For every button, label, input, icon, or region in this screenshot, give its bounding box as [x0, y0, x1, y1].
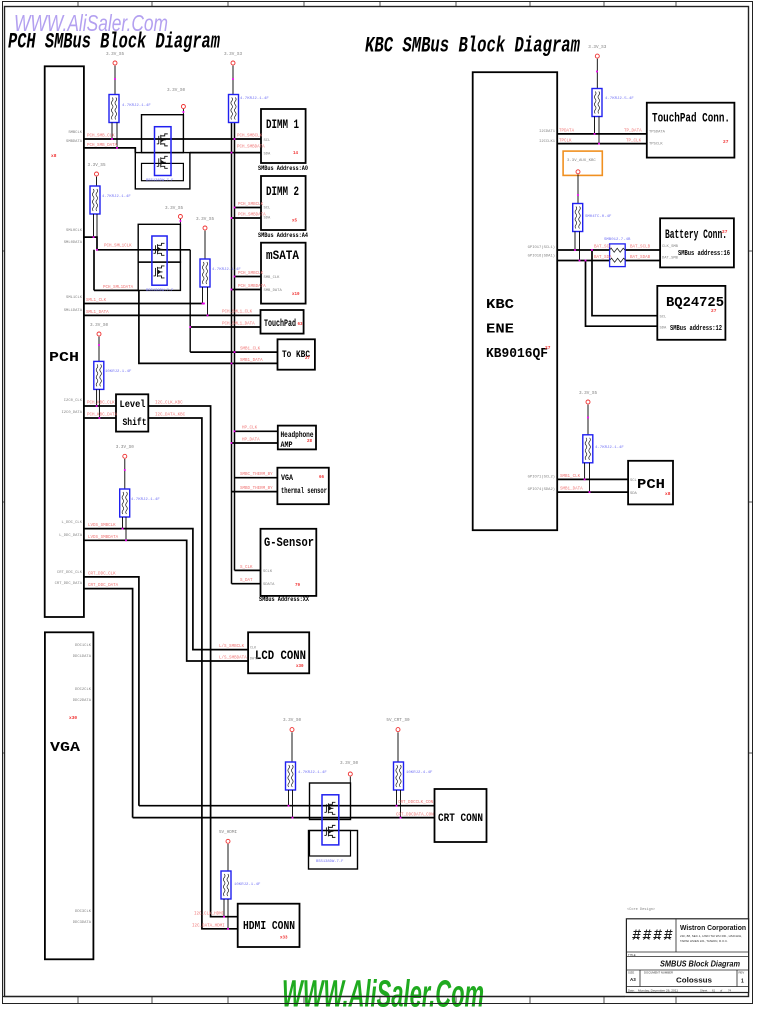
svg-text:27: 27 — [711, 308, 717, 314]
wire DIMM2 SDA stub — [232, 217, 262, 219]
wire To-KBC DATA wrap — [94, 250, 278, 364]
svg-text:3.3V_S5: 3.3V_S5 — [196, 217, 214, 222]
net labels right — [559, 130, 651, 492]
power flag 3.3V_S5 (R1) — [106, 52, 124, 95]
wire R8 leads — [224, 899, 228, 929]
svg-text:Shift: Shift — [123, 417, 147, 429]
svg-text:PCH: PCH — [637, 478, 665, 493]
svg-text:L/S_SMBDATA: L/S_SMBDATA — [219, 656, 247, 661]
svg-text:DOCUMENT NUMBER: DOCUMENT NUMBER — [644, 971, 673, 975]
svg-text:79: 79 — [295, 584, 301, 588]
resistor R7 pull-up CRT 5V — [394, 762, 404, 790]
resistor R4 pull-up SML1 — [200, 259, 210, 287]
wire Headphone DATA stub — [232, 442, 278, 444]
svg-text:3.3V_S0: 3.3V_S0 — [283, 718, 301, 723]
wire mSATA SMB_CLK stub — [235, 276, 262, 278]
svg-text:BSS138DW-7-F: BSS138DW-7-F — [316, 860, 344, 864]
wire VGA-thermal DATA stub — [232, 491, 278, 493]
svg-text:TouchPad Conn.: TouchPad Conn. — [652, 112, 730, 126]
svg-text:SML0DATA: SML0DATA — [64, 241, 83, 245]
wire CRT CLK bus to CRT CONN — [139, 805, 435, 807]
svg-text:BAT_SCLB: BAT_SCLB — [630, 246, 651, 250]
resistor R9 pull-up LVDS — [120, 489, 130, 517]
resistor R3 pull-up SML0 — [90, 186, 100, 214]
block TouchPad Conn. — [647, 103, 735, 158]
svg-text:4.7KRJ2-1-4F: 4.7KRJ2-1-4F — [122, 104, 151, 108]
svg-text:DATA: DATA — [250, 658, 259, 662]
resistor R10 pull-up SMB1 — [583, 435, 593, 463]
svg-text:KBC: KBC — [486, 298, 514, 313]
svg-text:3.3V_S0: 3.3V_S0 — [90, 323, 108, 328]
junction dots left — [93, 78, 402, 930]
svg-text:Level: Level — [120, 399, 146, 411]
block HDMI CONN — [238, 904, 300, 947]
block DIMM 2 — [261, 176, 306, 230]
svg-text:PCH_SMB_CLK: PCH_SMB_CLK — [87, 135, 115, 139]
svg-text:PCH_SML1CLK: PCH_SML1CLK — [104, 245, 132, 249]
svg-text:3.3V_S0: 3.3V_S0 — [116, 445, 134, 450]
svg-text:3.3V_S5: 3.3V_S5 — [87, 163, 105, 168]
svg-text:21F, 88, SEC.1, HSIN TAI WU RD: 21F, 88, SEC.1, HSIN TAI WU RD., HSICHIH… — [680, 934, 742, 938]
svg-text:CLK_SMB: CLK_SMB — [662, 245, 679, 249]
wire BAT_SCL — [557, 249, 660, 251]
svg-text:SIZE: SIZE — [628, 971, 634, 975]
wire R13 leads — [595, 117, 600, 144]
svg-text:BAT_SDAB: BAT_SDAB — [630, 256, 651, 260]
svg-text:I2CCLK1: I2CCLK1 — [539, 140, 556, 144]
svg-text:CRT_DDC_DATA: CRT_DDC_DATA — [55, 582, 83, 586]
svg-text:x30: x30 — [69, 715, 77, 721]
svg-text:LVDS_SMBCLK: LVDS_SMBCLK — [88, 524, 116, 528]
svg-text:I2C_CLK_KBC: I2C_CLK_KBC — [155, 402, 183, 406]
resistor R11 battery pull-up — [573, 204, 583, 232]
svg-text:SML1CLK: SML1CLK — [66, 296, 83, 300]
svg-text:SMBus Address:A4: SMBus Address:A4 — [258, 232, 308, 239]
svg-text:SMBDATA: SMBDATA — [66, 140, 83, 144]
svg-text:3.3V_S3: 3.3V_S3 — [588, 45, 606, 50]
svg-text:66: 66 — [319, 476, 325, 480]
wire cluster2 CLK output vertical — [189, 250, 191, 352]
wire BQ24725 SDA — [586, 261, 658, 327]
svg-text:I2CDAT1: I2CDAT1 — [539, 130, 556, 134]
svg-text:I2C0_CLK: I2C0_CLK — [64, 399, 83, 403]
svg-text:REV: REV — [739, 971, 745, 975]
svg-text:S_DAT: S_DAT — [240, 579, 253, 583]
net labels left — [86, 135, 434, 929]
wire PCH to LevelShift DATA — [84, 417, 116, 419]
svg-text:AMP: AMP — [281, 441, 293, 450]
svg-text:3.3V_S5: 3.3V_S5 — [106, 52, 124, 57]
wire PCH to LevelShift CLK — [84, 405, 116, 407]
svg-text:HP_CLK: HP_CLK — [242, 427, 258, 431]
power flag 3.3V_S0 (R6) — [283, 718, 301, 762]
svg-text:of: of — [720, 989, 723, 993]
svg-text:27: 27 — [722, 229, 728, 235]
svg-text:DDC3DATA: DDC3DATA — [73, 921, 92, 925]
svg-text:SMB1_CLK: SMB1_CLK — [560, 475, 581, 479]
svg-text:5V_CRT_S0: 5V_CRT_S0 — [386, 718, 410, 723]
svg-text:27: 27 — [723, 139, 729, 145]
wire SMB bus verticals — [232, 123, 235, 584]
svg-text:SML1_CLK: SML1_CLK — [86, 299, 107, 303]
svg-text:PCH_SMBCLK: PCH_SMBCLK — [238, 272, 264, 276]
power flag 3.3V_S3 (R2) — [224, 52, 242, 95]
resistor R2 pull-up DIMM — [229, 95, 239, 123]
wire SMB1_DATA KBC-PCH — [557, 491, 628, 493]
svg-text:10KRJ2-4-4F: 10KRJ2-4-4F — [406, 771, 433, 775]
block VGA — [45, 632, 94, 959]
block G-Sensor — [261, 529, 317, 596]
wire R10 leads — [585, 463, 590, 492]
svg-text:PCH_KBC_CLK: PCH_KBC_CLK — [87, 402, 115, 406]
svg-text:L/S_SMBCLK: L/S_SMBCLK — [219, 644, 245, 649]
wire R6 leads — [289, 790, 293, 818]
svg-text:CRT CONN: CRT CONN — [438, 813, 483, 825]
wire mSATA SMB_DATA stub — [232, 289, 262, 291]
block TouchPad — [261, 310, 304, 334]
svg-text:CRT_DDC_DATA: CRT_DDC_DATA — [88, 584, 119, 588]
wire orange stem — [577, 174, 579, 203]
svg-text:x30: x30 — [296, 665, 304, 669]
svg-text:Sheet: Sheet — [700, 989, 708, 993]
svg-text:GPIO71(SCL2): GPIO71(SCL2) — [528, 475, 555, 480]
svg-text:SCL: SCL — [264, 207, 272, 211]
svg-text:TPSCLK: TPSCLK — [649, 143, 663, 147]
wire R7 leads — [397, 790, 401, 818]
svg-text:PCH SMBus Block Diagram: PCH SMBus Block Diagram — [8, 29, 220, 55]
svg-text:CRT_DDCCLK_CON: CRT_DDCCLK_CON — [398, 801, 434, 805]
resistor R1 pull-up SMB — [109, 95, 119, 123]
svg-text:4.7KRJ2-1-4F: 4.7KRJ2-1-4F — [595, 446, 624, 450]
svg-text:4.7KRJ2-5-4F: 4.7KRJ2-5-4F — [605, 97, 634, 101]
svg-text:28: 28 — [307, 440, 313, 444]
wire SML1_DATA to TouchPad — [84, 314, 261, 316]
svg-text:I2C_DATA_KBC: I2C_DATA_KBC — [155, 414, 186, 418]
svg-text:4.7KRJ2-1-4F: 4.7KRJ2-1-4F — [212, 268, 241, 272]
svg-text:SMBus address:12: SMBus address:12 — [670, 325, 722, 333]
svg-text:GPIO17(SCL1): GPIO17(SCL1) — [528, 245, 555, 250]
power node box 3.3V_AUX_KBC — [563, 151, 602, 175]
wire LVDS DATA to LCD — [84, 540, 248, 661]
svg-text:thermal sensor: thermal sensor — [281, 486, 327, 496]
wire SMB1_CLK KBC-PCH — [557, 478, 628, 480]
transistor cluster Q2 (SML1 level shift) — [138, 224, 180, 293]
svg-text:PCH_SMB_DATA: PCH_SMB_DATA — [87, 144, 118, 148]
svg-text:SDATA: SDATA — [263, 583, 275, 587]
svg-text:SCL: SCL — [660, 316, 668, 320]
svg-text:SMB1_DATA: SMB1_DATA — [240, 359, 263, 363]
svg-text:Battery Conn.: Battery Conn. — [665, 228, 727, 242]
svg-text:DDC3CLK: DDC3CLK — [75, 910, 92, 914]
svg-text:DDC2DATA: DDC2DATA — [73, 699, 92, 703]
wire R4 leads — [203, 287, 208, 315]
title block Wistron — [626, 907, 748, 993]
watermark bottom WWW.AliSaler.Com — [282, 974, 484, 1016]
power flag 3.3V_S0 (R9) — [116, 445, 134, 489]
svg-text:SMBUS Block Diagram: SMBUS Block Diagram — [660, 959, 740, 969]
svg-text:3.3V_AUX_KBC: 3.3V_AUX_KBC — [567, 159, 596, 163]
PCH pin labels — [51, 131, 83, 586]
svg-text:DDC1DATA: DDC1DATA — [73, 655, 92, 659]
svg-text:TPDATA: TPDATA — [559, 130, 575, 134]
wire R9 leads — [123, 517, 127, 540]
wire CRT DATA bus to CRT CONN — [133, 817, 435, 819]
svg-text:SMB_CLK: SMB_CLK — [264, 276, 281, 280]
wire PCH_SMB_DATA jog — [84, 148, 135, 153]
block PCH (from KBC) — [628, 461, 673, 505]
svg-text:DDC1CLK: DDC1CLK — [75, 644, 92, 648]
wire To-KBC CLK — [190, 351, 277, 353]
block LCD CONN — [248, 632, 309, 673]
svg-text:SCLK: SCLK — [263, 570, 273, 574]
svg-text:4.7KRJ2-1-4F: 4.7KRJ2-1-4F — [240, 97, 269, 101]
transistor cluster Q3 (CRT level shift) — [309, 783, 358, 869]
svg-text:x8: x8 — [665, 491, 671, 497]
wire BQ24725 SCL — [592, 250, 657, 316]
svg-text:SMB_DATA: SMB_DATA — [264, 289, 283, 293]
svg-text:SDA: SDA — [660, 327, 668, 331]
svg-text:KB9016QF: KB9016QF — [486, 347, 548, 362]
svg-text:4.7KRJ2-1-4F: 4.7KRJ2-1-4F — [102, 195, 131, 199]
svg-text:SMBus Address:XX: SMBus Address:XX — [259, 596, 309, 603]
power flag 3.3V_S5 (R10) — [579, 391, 597, 435]
svg-text:TP_CLK: TP_CLK — [626, 140, 642, 144]
svg-text:3.3V_S0: 3.3V_S0 — [340, 761, 358, 766]
svg-text:KBC SMBus Block Diagram: KBC SMBus Block Diagram — [365, 32, 580, 58]
svg-text:61: 61 — [712, 989, 716, 993]
junction dots right — [574, 71, 600, 493]
svg-text:GPIO16(SDA1): GPIO16(SDA1) — [528, 254, 555, 259]
wire CRT_DDC_DATA down — [84, 589, 133, 818]
block mSATA — [261, 243, 306, 304]
svg-text:DAT_SMB: DAT_SMB — [662, 257, 679, 261]
svg-text:PCH_SMBDATA: PCH_SMBDATA — [237, 146, 265, 150]
power flag 5V_HDMI (R8) — [219, 830, 237, 871]
svg-text:SCL: SCL — [630, 479, 638, 483]
svg-text:PCH_SMBDATA: PCH_SMBDATA — [238, 214, 266, 218]
svg-text:BAT_SCL: BAT_SCL — [594, 246, 612, 250]
svg-text:SML0CLK: SML0CLK — [66, 229, 83, 233]
svg-text:PCH_SMBCLK: PCH_SMBCLK — [238, 203, 264, 207]
svg-text:I2C_CLK_HDMI: I2C_CLK_HDMI — [194, 913, 225, 917]
block To KBC — [278, 339, 315, 369]
wire KBC TPDATA — [557, 133, 647, 135]
block BQ24725 — [657, 286, 725, 340]
svg-text:GPIO74(SDA2): GPIO74(SDA2) — [528, 487, 555, 492]
svg-text:SDA: SDA — [264, 153, 272, 157]
svg-text:10KRJ2-1-4F: 10KRJ2-1-4F — [105, 370, 132, 374]
svg-text:<Core Design>: <Core Design> — [627, 907, 655, 912]
svg-text:14: 14 — [293, 152, 299, 156]
svg-text:4.7KRJ2-1-4F: 4.7KRJ2-1-4F — [298, 771, 327, 775]
wire R5 leads — [97, 389, 100, 418]
resistor R8 pull-up HDMI — [221, 871, 231, 899]
resistor R6 pull-up CRT 3V — [286, 762, 296, 790]
wire Headphone CLK stub — [235, 430, 278, 432]
svg-text:Monday, December 26, 2011: Monday, December 26, 2011 — [638, 989, 678, 993]
block DIMM 1 — [261, 109, 306, 163]
svg-text:27: 27 — [305, 357, 311, 361]
svg-text:SMBC_THERM_BY: SMBC_THERM_BY — [240, 473, 273, 477]
wire R3 leads — [94, 214, 98, 250]
svg-text:CRT_DDC_CLK: CRT_DDC_CLK — [88, 573, 116, 577]
power flag 3.3V_S0 (R5) — [90, 323, 108, 361]
wire TouchPad DATA — [190, 326, 260, 328]
wire SML1_CLK — [84, 303, 204, 305]
svg-text:Wistron Corporation: Wistron Corporation — [680, 923, 746, 932]
svg-text:74: 74 — [728, 989, 732, 993]
wire G-Sensor SCLK stub — [235, 569, 261, 571]
block Battery Conn. — [660, 218, 734, 267]
svg-text:DIMM 1: DIMM 1 — [266, 117, 299, 132]
power flag 3.3V_S0 (cluster Q1) — [167, 88, 185, 115]
svg-text:4.7KRJ2-1-4F: 4.7KRJ2-1-4F — [131, 498, 160, 502]
svg-text:x10: x10 — [292, 293, 300, 297]
svg-text:Colossus: Colossus — [676, 978, 712, 985]
wire BAT_SDA — [557, 260, 660, 262]
svg-text:CRT_DDCDATA_CON: CRT_DDCDATA_CON — [396, 814, 434, 818]
wire PCH_SML0 jog through cluster — [84, 237, 190, 250]
svg-text:10KRJ2-1-4F: 10KRJ2-1-4F — [234, 883, 261, 887]
svg-text:5V_HDMI: 5V_HDMI — [219, 830, 237, 835]
svg-text:27: 27 — [545, 345, 551, 351]
svg-text:HDMI CONN: HDMI CONN — [243, 919, 295, 933]
power flag 3.3V_S3 (R13) — [588, 45, 606, 89]
svg-text:TITLE: TITLE — [628, 953, 636, 957]
block Level Shift — [116, 394, 148, 431]
wire VGA-thermal CLK stub — [235, 477, 278, 479]
svg-text:SML1DATA: SML1DATA — [64, 309, 83, 313]
wire LVDS CLK to LCD — [84, 529, 248, 650]
svg-text:PCH_SML1DATA: PCH_SML1DATA — [103, 286, 134, 290]
svg-text:x8: x8 — [51, 153, 57, 159]
svg-text:CRT_DDC_CLK: CRT_DDC_CLK — [57, 571, 83, 575]
resistor R13 pull-up touchpad — [592, 89, 602, 117]
power flag 3.3V_S5 (cluster Q2) — [165, 206, 183, 224]
block Headphone AMP — [278, 426, 316, 450]
wire G-Sensor SDATA stub — [232, 583, 261, 585]
svg-text:PCH_SMBCLK: PCH_SMBCLK — [237, 135, 263, 139]
svg-text:x33: x33 — [280, 937, 288, 941]
power flag 3.3V_S0 (cluster Q3) — [340, 761, 358, 783]
svg-text:Date:: Date: — [628, 989, 635, 993]
svg-text:mSATA: mSATA — [266, 248, 299, 263]
svg-text:63: 63 — [298, 323, 304, 327]
title PCH SMBus Block Diagram — [8, 29, 220, 55]
wire DIMM2 SCL stub — [235, 207, 262, 209]
block KBC ENE KB9016QF — [473, 72, 558, 530]
svg-text:SMB012-7-4B: SMB012-7-4B — [604, 238, 631, 242]
svg-text:PCH_SML1_CLK: PCH_SML1_CLK — [222, 311, 253, 315]
svg-text:ENE: ENE — [486, 323, 514, 338]
svg-text:SMBus Address:A0: SMBus Address:A0 — [258, 165, 308, 172]
svg-text:SMBCLK: SMBCLK — [68, 131, 82, 135]
svg-text:DDC2CLK: DDC2CLK — [75, 688, 92, 692]
svg-text:SMB1_CLK: SMB1_CLK — [240, 348, 261, 352]
svg-text:LVDS_SMBDATA: LVDS_SMBDATA — [88, 536, 119, 540]
svg-text:SM04TC-0-4F: SM04TC-0-4F — [585, 215, 612, 219]
svg-text:PCH_SML1_DATA: PCH_SML1_DATA — [222, 323, 255, 327]
wire R11 leads — [575, 232, 580, 261]
svg-text:CLK: CLK — [250, 647, 257, 651]
wire PCH_SMB_CLK to DIMM1 SCL — [84, 138, 261, 140]
svg-text:PCH: PCH — [49, 350, 79, 366]
svg-text:Headphone: Headphone — [281, 430, 314, 440]
svg-text:BSS138DW-7-F: BSS138DW-7-F — [146, 289, 174, 293]
svg-text:L_DDC_DATA: L_DDC_DATA — [59, 534, 83, 538]
VGA pin labels — [69, 644, 92, 925]
label SMBus Address:A0 — [258, 165, 308, 172]
bottom border overlay lines — [3, 997, 753, 1004]
svg-text:SCL: SCL — [264, 139, 272, 143]
svg-text:G-Sensor: G-Sensor — [264, 535, 314, 550]
svg-text:TAIPEI HSIEN 221, TAIWAN, R.O.: TAIPEI HSIEN 221, TAIWAN, R.O.C. — [680, 939, 728, 943]
watermark top WWW.AliSaler.Com — [14, 10, 168, 36]
svg-text:WWW.AliSaler.Com: WWW.AliSaler.Com — [282, 974, 484, 1016]
power flag 5V_CRT_S0 (R7) — [386, 718, 410, 762]
wire R1 leads — [112, 123, 117, 148]
block VGA thermal sensor — [277, 468, 328, 505]
svg-text:TouchPad: TouchPad — [264, 318, 296, 330]
svg-text:L_DDC_CLK: L_DDC_CLK — [61, 521, 82, 525]
title KBC SMBus Block Diagram — [365, 32, 580, 58]
svg-text:PCH_SMBDATA: PCH_SMBDATA — [238, 285, 266, 289]
svg-text:TPCLK: TPCLK — [559, 140, 572, 144]
block CRT CONN — [435, 789, 487, 842]
svg-text:PCH_KBC_DATA: PCH_KBC_DATA — [87, 414, 118, 418]
svg-text:I2C_DATA_HDMI: I2C_DATA_HDMI — [192, 925, 225, 929]
power flag 3.3V_S5 (R4) — [196, 217, 214, 259]
resistor R5 pull-up I2C — [94, 361, 104, 389]
wire CRT_DDC_CLK down — [84, 577, 139, 806]
svg-text:S_CLK: S_CLK — [240, 566, 253, 570]
svg-text:I2C0_DATA: I2C0_DATA — [61, 411, 82, 415]
svg-text:VGA: VGA — [281, 474, 293, 483]
svg-text:SMB1_DATA: SMB1_DATA — [560, 488, 583, 492]
transistor cluster Q1 (SMB level shift) — [135, 115, 190, 189]
svg-text:SDA: SDA — [630, 492, 638, 496]
label SMBus Address:XX — [259, 596, 309, 603]
svg-text:BAT_SDA: BAT_SDA — [594, 256, 612, 260]
wire KBC TPCLK — [557, 143, 647, 145]
svg-text:3.3V_S0: 3.3V_S0 — [167, 88, 185, 93]
power flag 3.3V_S5 (R3) — [87, 163, 105, 186]
svg-text:1: 1 — [741, 979, 744, 985]
svg-text:SMBD_THERM_BY: SMBD_THERM_BY — [240, 487, 273, 491]
wire LevelShift CLK to HDMI — [148, 406, 237, 917]
svg-text:VGA: VGA — [50, 740, 81, 756]
svg-text:3.3V_S5: 3.3V_S5 — [579, 391, 597, 396]
svg-text:SMBus address:16: SMBus address:16 — [678, 250, 730, 258]
svg-text:BSS138DW-7-F: BSS138DW-7-F — [146, 179, 174, 183]
svg-text:TP_DATA: TP_DATA — [624, 130, 642, 134]
svg-text:x5: x5 — [292, 220, 298, 224]
wire SMB_DATA to DIMM1 SDA — [190, 152, 261, 154]
svg-text:TPSDATA: TPSDATA — [649, 131, 666, 135]
KBC pin labels — [528, 130, 556, 492]
block PCH — [45, 66, 84, 617]
svg-text:HP_DATA: HP_DATA — [242, 439, 260, 443]
label SMBus Address:A4 — [258, 232, 308, 239]
svg-text:3.3V_S3: 3.3V_S3 — [224, 52, 242, 57]
svg-text:A3: A3 — [630, 977, 636, 982]
svg-text:LCD CONN: LCD CONN — [255, 649, 306, 663]
svg-text:3.3V_S5: 3.3V_S5 — [165, 206, 183, 211]
resistor R12 series pack battery — [609, 244, 625, 267]
svg-text:SML1_DATA: SML1_DATA — [86, 311, 109, 315]
svg-text:DIMM 2: DIMM 2 — [266, 184, 299, 199]
wire LevelShift DATA to HDMI — [148, 418, 237, 929]
